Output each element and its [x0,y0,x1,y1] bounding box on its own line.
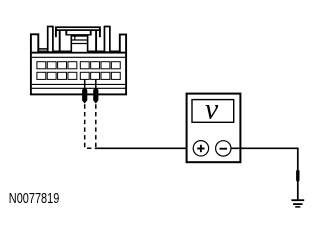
test pin P2 body [93,88,98,103]
voltmeter negative terminal [216,141,231,156]
test pin P1 neck [84,79,86,90]
connector corner tab A (top-left) [31,34,38,52]
latch strap bar [56,27,100,30]
svg-text:v: v [205,92,219,125]
svg-text:N0077819: N0077819 [9,191,60,207]
voltmeter positive terminal [193,141,208,156]
voltmeter V1 box [187,94,241,163]
test pin P1 body [82,88,87,103]
connector tab B (tall) [48,27,53,53]
test pin P2 neck [95,79,97,90]
connector corner tab E (top-right) [120,35,126,53]
dashed lead from pin P1 [85,104,96,148]
ground terminal pin [296,170,299,183]
connector tab D (tall) [104,27,109,53]
latch strap outer legs [55,28,57,37]
latch stack box [71,36,87,53]
connector shelf between tab A and tab B [38,48,47,50]
pin cavities row 1 [37,62,120,69]
connector C1 body [31,51,126,94]
voltmeter display window [192,100,234,123]
pin cavities row 2 [37,72,120,79]
latch wings [65,30,91,35]
wire to voltmeter [95,147,193,149]
dashed lead from pin P2 [95,104,97,147]
ground symbol [291,200,304,207]
latch strap inner legs [59,30,61,53]
wire from voltmeter to ground [231,148,298,199]
